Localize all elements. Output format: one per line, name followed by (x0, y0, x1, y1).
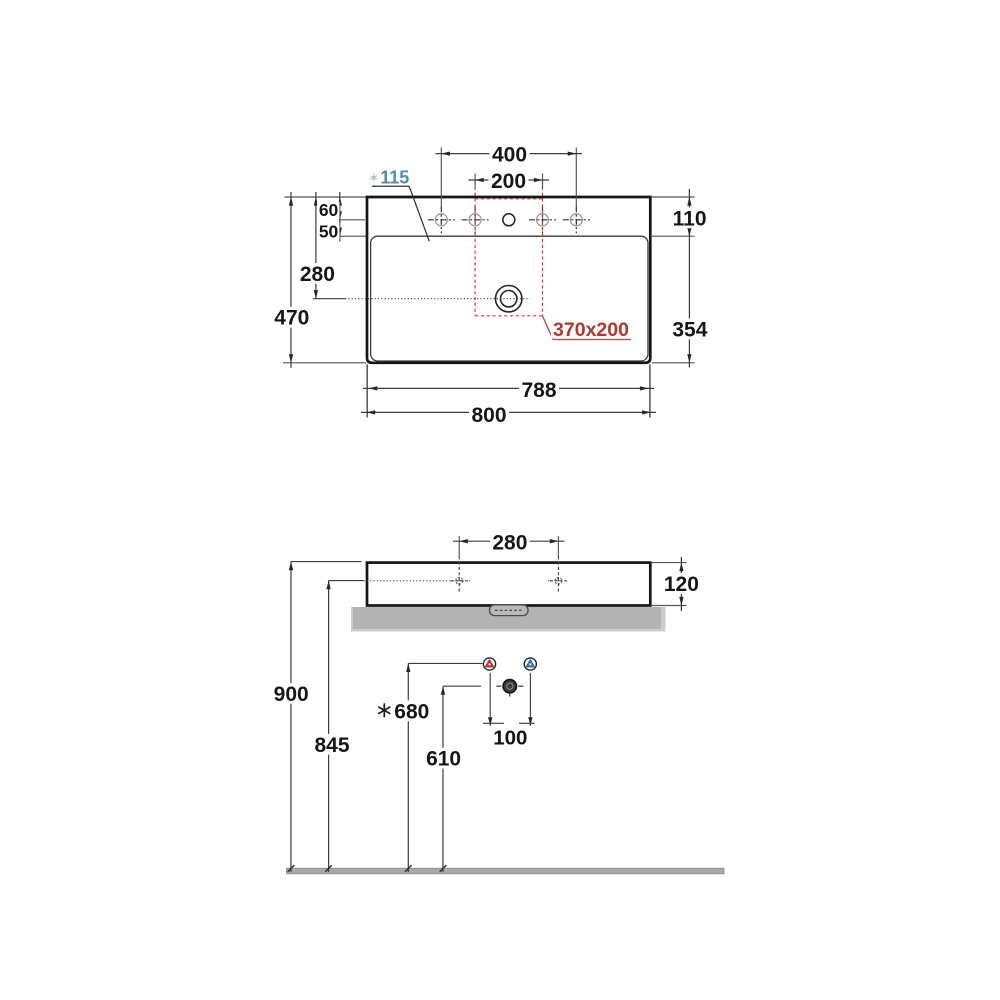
svg-text:800: 800 (471, 404, 506, 427)
svg-text:115: 115 (380, 167, 409, 187)
svg-text:370x200: 370x200 (553, 319, 629, 341)
svg-text:354: 354 (672, 319, 707, 342)
svg-text:788: 788 (521, 379, 556, 402)
svg-text:470: 470 (274, 307, 309, 330)
svg-text:50: 50 (319, 222, 339, 242)
svg-text:100: 100 (493, 727, 527, 750)
svg-text:400: 400 (492, 144, 527, 167)
svg-text:200: 200 (491, 170, 526, 193)
svg-text:110: 110 (673, 207, 707, 230)
svg-text:610: 610 (426, 748, 461, 771)
svg-text:280: 280 (492, 531, 527, 554)
svg-text:900: 900 (274, 683, 309, 706)
svg-text:120: 120 (664, 573, 699, 596)
svg-text:845: 845 (314, 734, 349, 757)
svg-text:60: 60 (319, 200, 339, 220)
svg-text:280: 280 (300, 263, 335, 286)
svg-text:680: 680 (394, 700, 429, 723)
